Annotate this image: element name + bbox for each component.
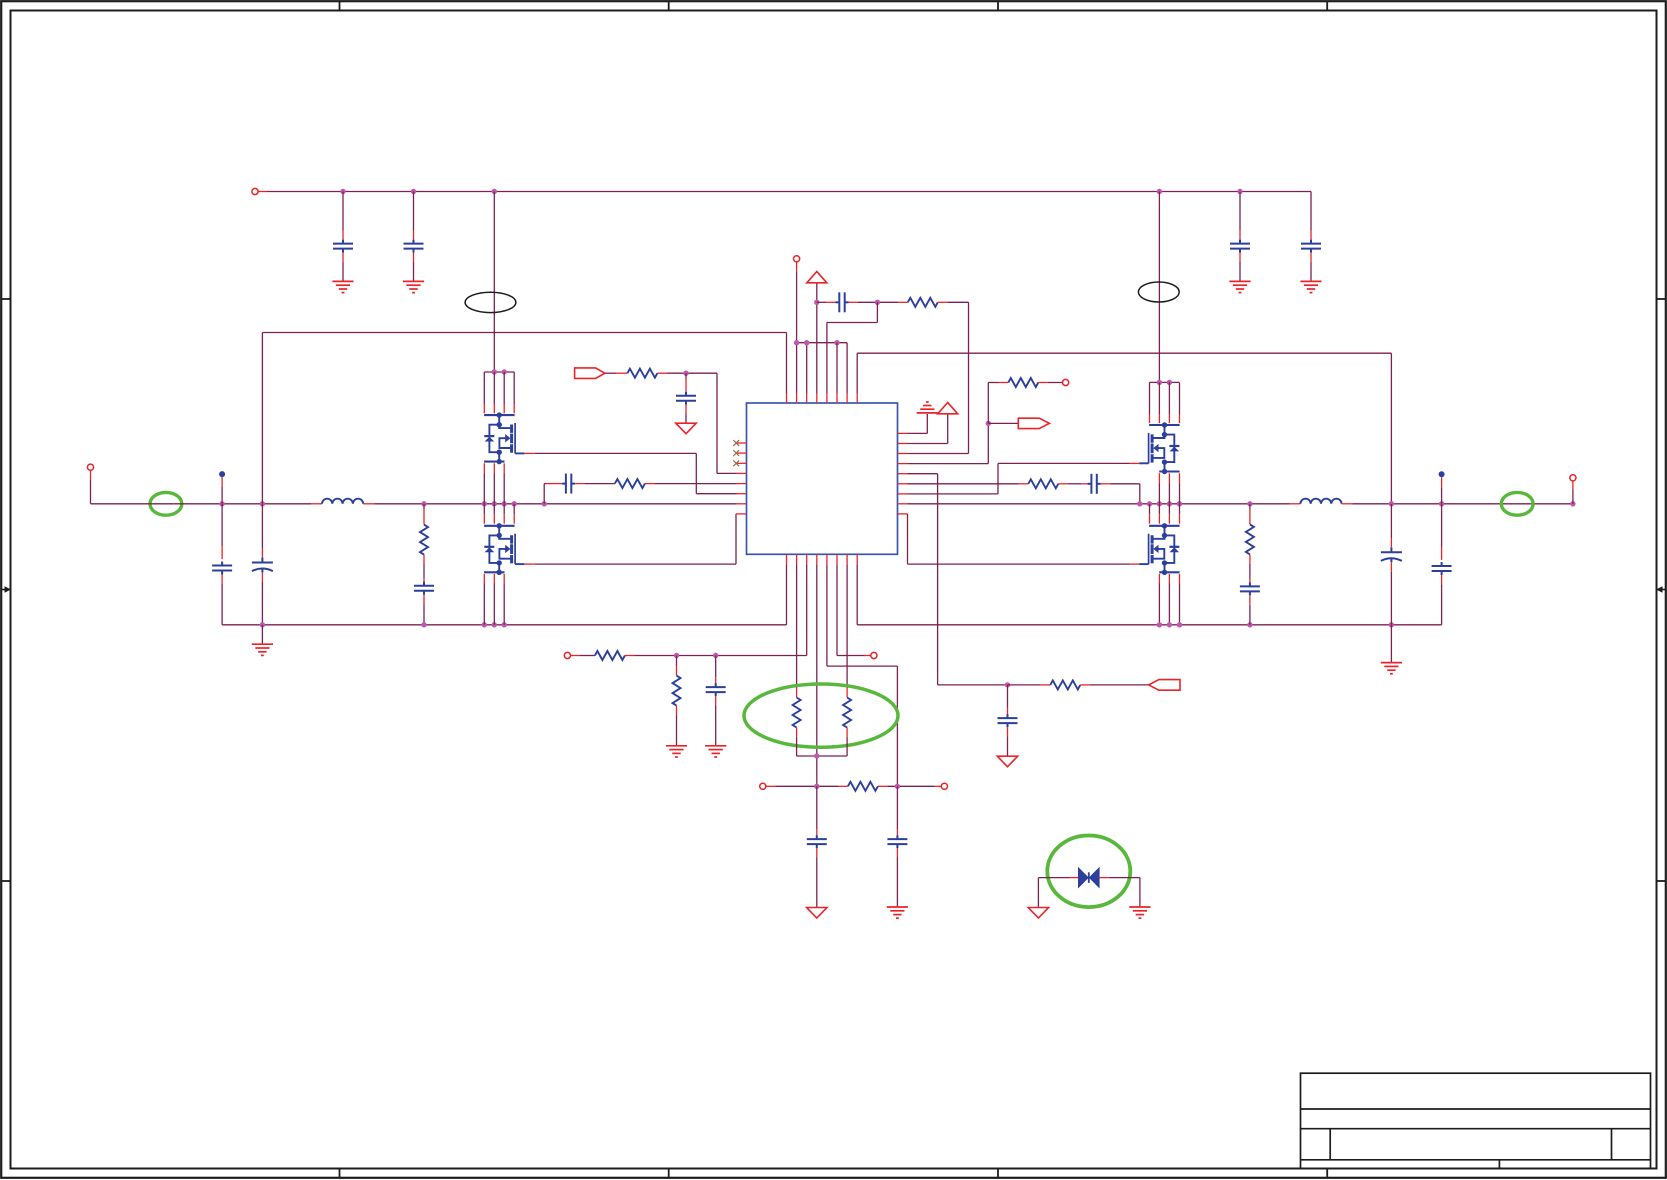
junction [492, 622, 497, 627]
wire: D1 pin [1100, 877, 1109, 879]
capacitor C10 [1301, 240, 1321, 253]
capacitor C13 [887, 835, 907, 848]
junction [1439, 501, 1444, 506]
transistor Q2 (low-side left) [483, 504, 485, 514]
frame zone tick top [1326, 1, 1328, 11]
wire [908, 493, 999, 495]
wire: compensation row [817, 301, 826, 303]
wire: node to C4 [261, 504, 263, 548]
junction [1147, 501, 1152, 506]
ferrite/measure ellipse right [1138, 282, 1179, 302]
junction [482, 501, 487, 506]
op-amp/controller U1 [747, 403, 898, 554]
capacitor C14 [562, 474, 575, 494]
junction [794, 340, 799, 345]
frame zone tick top [668, 1, 670, 11]
wire: rail to C2 [413, 192, 415, 231]
wire: RS1 top pin [796, 688, 798, 697]
wire [1038, 877, 1069, 879]
terminal (prog-) [760, 783, 766, 789]
wire: node to C3 [221, 504, 223, 546]
ferrite/measure ellipse left [465, 292, 516, 312]
wire: U1 right pin stub [898, 483, 908, 485]
wire [826, 564, 828, 666]
frame centering arrow right [1656, 586, 1666, 592]
frame zone tick top [339, 1, 341, 11]
junction [804, 340, 809, 345]
junction [986, 421, 991, 426]
wire [858, 301, 898, 303]
frame zone tick bottom [997, 1169, 999, 1179]
wire [836, 564, 838, 655]
junction [542, 501, 547, 506]
resistor R3 [420, 525, 428, 555]
wire: U1 top pin stub [806, 394, 808, 404]
wire [947, 301, 968, 303]
frame zone tick bottom [668, 1169, 670, 1179]
capacitor C2 [404, 240, 424, 253]
power ground [807, 908, 827, 919]
power arrow VCC [807, 272, 827, 283]
ground [332, 281, 353, 292]
wire: U1 top pin stub [836, 394, 838, 404]
capacitor C17 [1088, 474, 1101, 494]
wire: U1 top pin stub [786, 394, 788, 404]
junction [895, 784, 900, 789]
wire: U1 pin stub [737, 503, 747, 505]
wire [938, 684, 1008, 686]
power ground [1028, 908, 1048, 919]
wire [1572, 490, 1574, 504]
junction [814, 784, 819, 789]
terminal (sense) [794, 256, 800, 262]
wire [896, 666, 898, 786]
wire [544, 483, 546, 485]
wire: VCC pin [816, 283, 818, 394]
wire: down to U1 right pin3 [968, 302, 970, 453]
junction [492, 369, 497, 374]
wire: node to R3 [423, 504, 425, 509]
wire [908, 473, 938, 475]
terminal (input supply) [252, 188, 258, 194]
power ground [997, 756, 1017, 767]
wire: U1 top pin stub [816, 394, 818, 404]
wire [654, 483, 736, 485]
capacitor C3 [212, 562, 232, 575]
ground [1129, 907, 1150, 918]
resistor R10 [595, 651, 625, 660]
resistor R5 [1008, 378, 1038, 387]
capacitor C9 [1230, 240, 1250, 253]
ground [1300, 281, 1321, 292]
wire: left output line [91, 503, 312, 505]
transistor Q4 (low-side right) [1149, 504, 1151, 514]
green highlight circle (TVS) [1047, 836, 1130, 908]
wire [876, 302, 878, 322]
green highlight ellipse right [1501, 492, 1533, 515]
junction [814, 300, 819, 305]
inductor L1 [322, 499, 363, 504]
wire: node to RC row [543, 484, 545, 504]
wire: rail to C10 [1310, 192, 1312, 231]
wire: U1 right pin stub [898, 473, 908, 475]
wire: node to C12 [1441, 504, 1443, 547]
wire: right switch node [908, 503, 1290, 505]
capacitor C4 (polarized) [252, 558, 273, 573]
wire [908, 463, 989, 465]
junction [1247, 501, 1252, 506]
capacitor C12 [1432, 562, 1452, 575]
capacitor C5 [414, 582, 434, 595]
green highlight ellipse left [150, 492, 182, 515]
wire: U1 right pin stub [898, 432, 908, 434]
frame centering arrow left [1, 586, 11, 592]
wire: D1 pin [1070, 877, 1079, 879]
wire [827, 665, 898, 667]
capacitor C15 [836, 292, 849, 312]
wire: rail to ground [1390, 625, 1392, 662]
wire [856, 353, 858, 393]
wire: pinA to ground rail [786, 564, 788, 624]
TVS diode D1 (bidirectional) [1078, 867, 1100, 889]
no-connect X [733, 460, 739, 466]
capacitor C11 (polarized) [1381, 547, 1402, 562]
junction [421, 622, 426, 627]
transistor Q3 (high-side right) [1150, 381, 1180, 383]
wire: rail to C1 [342, 192, 344, 231]
wire: stub [796, 262, 798, 271]
wire: to C13 [896, 786, 898, 829]
ground [1229, 281, 1250, 292]
wire: rail to C9 [1239, 192, 1241, 231]
junction [1237, 189, 1242, 194]
title block [1301, 1073, 1651, 1168]
junction [1005, 682, 1010, 687]
capacitor C7 [706, 683, 726, 696]
junction [260, 622, 265, 627]
wire: to left sense row [806, 564, 808, 655]
wire [988, 382, 999, 384]
resistor R11 [673, 676, 681, 706]
wire: U1 right pin stub [898, 463, 908, 465]
wire: U1 pin stub [737, 472, 747, 474]
signal earth [917, 402, 938, 413]
junction [219, 501, 224, 506]
wire [836, 343, 838, 394]
wire: U1 right pin stub [898, 453, 908, 455]
frame zone tick top [997, 1, 999, 11]
frame zone tick bottom [1326, 1169, 1328, 1179]
wire: right ground rail [857, 624, 1441, 626]
junction [482, 622, 487, 627]
wire [1037, 878, 1039, 907]
wire: stub [766, 785, 776, 787]
wire: right output line [1352, 503, 1573, 505]
wire [1139, 484, 1141, 504]
transistor Q4 symbol [1139, 523, 1179, 575]
wire: U1 right pin stub [898, 513, 908, 515]
wire [796, 271, 798, 393]
junction [502, 369, 507, 374]
wire: rail to ground [261, 625, 263, 644]
wire: Q2 gate to U1 [535, 563, 736, 565]
wire: Q3 gate pin [1130, 462, 1140, 464]
ground [666, 746, 687, 757]
wire: U1 bottom pin stub [846, 554, 848, 564]
wire [837, 655, 864, 657]
wire: U1 right pin stub [898, 493, 908, 495]
signal flag (left) [575, 368, 605, 379]
junction [492, 189, 497, 194]
wire: U1 bottom pin stub [826, 554, 828, 564]
wire [827, 322, 878, 324]
junction [683, 371, 688, 376]
terminal (monitor) [871, 652, 877, 658]
frame zone tick left [1, 880, 11, 882]
test point TP1 [219, 471, 225, 477]
wire [1109, 877, 1140, 879]
wire [908, 483, 1019, 485]
wire [908, 453, 969, 455]
wire: node to C11 [1390, 504, 1392, 538]
wire: center sense vertical [816, 564, 818, 786]
junction [834, 340, 839, 345]
inductor L2 [1300, 499, 1341, 504]
capacitor C8 [807, 835, 827, 848]
junction [411, 189, 416, 194]
wire: U1 right pin stub [898, 443, 908, 445]
wire [1110, 483, 1140, 485]
capacitor C6 [676, 392, 696, 405]
wire: rail to Q3 drain [1158, 192, 1160, 383]
ground [1381, 663, 1402, 674]
wire [585, 483, 615, 485]
wire [715, 656, 717, 678]
junction [1137, 501, 1142, 506]
wire: Q1 gate to U1 [535, 452, 696, 454]
wire: U1 bottom pin stub [816, 554, 818, 564]
junction [1247, 622, 1252, 627]
transistor Q1 symbol [484, 412, 524, 464]
junction [260, 501, 265, 506]
wire [988, 422, 1018, 424]
junction [502, 501, 507, 506]
wire [676, 656, 678, 667]
terminal (enable) [1063, 379, 1069, 385]
capacitor C16 [998, 714, 1018, 727]
junction [502, 622, 507, 627]
wire [1390, 353, 1392, 504]
wire: top bus [797, 342, 848, 344]
wire: to C8 [816, 786, 818, 829]
frame zone tick left [1, 298, 11, 300]
wire: long run to right filter [857, 352, 1391, 354]
test point TP2 [1439, 471, 1445, 477]
wire: Q4 gate route [908, 563, 1130, 565]
junction [674, 653, 679, 658]
wire [667, 372, 717, 374]
wire [926, 414, 928, 433]
junction [1167, 622, 1172, 627]
wire [987, 383, 989, 424]
junction [1167, 380, 1172, 385]
junction [1177, 501, 1182, 506]
transistor Q3 symbol [1139, 422, 1179, 474]
wire [1139, 878, 1141, 907]
wire: node to R9 [1249, 504, 1251, 509]
wire: left switch node [374, 503, 736, 505]
junction [340, 189, 345, 194]
signal flag (right lower) [1149, 680, 1180, 691]
wire [1048, 382, 1063, 384]
wire [997, 463, 999, 494]
wire: U1 NC pin [737, 452, 747, 454]
resistor R12 [848, 782, 878, 791]
junction [421, 501, 426, 506]
wire: to sense resistor RS1 [796, 564, 798, 688]
wire: stub [571, 655, 581, 657]
ground [705, 746, 726, 757]
ground [252, 644, 273, 655]
wire [907, 514, 909, 564]
frame zone tick bottom [339, 1169, 341, 1179]
no-connect X [733, 450, 739, 456]
wire [90, 480, 92, 504]
wire: U1 top pin stub [856, 394, 858, 404]
wire: U1 bottom pin stub [856, 554, 858, 564]
green highlight ellipse (sense resistors) [744, 684, 898, 747]
junction [1389, 501, 1394, 506]
wire: to C16 [1007, 685, 1009, 708]
ground [403, 281, 424, 292]
wire [806, 343, 808, 394]
terminal (Isense+) [564, 652, 570, 658]
wire: down right of U1 [937, 474, 939, 685]
junction [1157, 189, 1162, 194]
wire: U1 NC pin [737, 462, 747, 464]
wire: U1 NC pin [737, 442, 747, 444]
wire: vertical to flag row [716, 373, 718, 473]
wire: terminal stub [90, 470, 92, 480]
wire: Q3 gate route [998, 462, 1130, 464]
ground [887, 907, 908, 918]
wire: U1 top pin stub [796, 394, 798, 404]
junction [875, 300, 880, 305]
terminal (prog+) [941, 783, 947, 789]
junction [1157, 380, 1162, 385]
wire [947, 414, 949, 444]
junction [1167, 501, 1172, 506]
wire: long feedback run [262, 332, 786, 334]
wire: to C6 [685, 373, 687, 378]
wire [796, 737, 798, 756]
wire [908, 432, 928, 434]
junction [1177, 622, 1182, 627]
resistor R6 [1028, 479, 1058, 488]
wire: rail to Q1 drain [493, 192, 495, 373]
transistor Q1 (high-side left) [484, 371, 514, 373]
resistor RS1 [793, 698, 801, 728]
frame zone tick right [1657, 298, 1667, 300]
wire [580, 655, 595, 657]
wire [1008, 684, 1041, 686]
junction [1157, 622, 1162, 627]
resistor R9 [1246, 524, 1254, 554]
wire: U1 bottom pin stub [836, 554, 838, 564]
wire: RS2 top pin [846, 688, 848, 697]
junction [492, 501, 497, 506]
terminal OUT-A [87, 464, 93, 470]
wire: U1 pin stub [736, 513, 747, 515]
wire [908, 443, 948, 445]
wire: Q2 gate pin [524, 563, 535, 565]
junction [814, 753, 819, 758]
wire: top power rail [267, 191, 1311, 193]
resistor R8 [1050, 680, 1080, 689]
no-connect X [733, 440, 739, 446]
wire: to sense resistor RS2 [846, 564, 848, 688]
resistor R1 [627, 369, 657, 378]
wire: U1 bottom pin stub [796, 554, 798, 564]
wire: U1 bottom pin stub [786, 554, 788, 564]
wire: sense row [634, 655, 806, 657]
wire [1090, 684, 1149, 686]
wire: pin1 up [786, 333, 788, 394]
wire: prog row [775, 785, 838, 787]
wire: U1 bottom pin stub [806, 554, 808, 564]
wire [826, 323, 828, 394]
terminal OUT-B [1570, 475, 1576, 481]
resistor RS2 [843, 698, 851, 728]
power ground [676, 423, 696, 434]
wire [717, 472, 737, 474]
capacitor C1 [333, 240, 353, 253]
junction [1570, 501, 1575, 506]
junction [1389, 622, 1394, 627]
wire: U1 top pin stub [846, 394, 848, 404]
wire: left ground rail [222, 624, 786, 626]
junction [713, 653, 718, 658]
signal flag (right upper) [1018, 418, 1049, 428]
wire: sense bottom tie [797, 755, 848, 757]
power arrow [938, 403, 958, 414]
resistor R4 [908, 298, 938, 307]
wire: U1 pin stub [737, 493, 747, 495]
junction [1157, 501, 1162, 506]
wire: U1 top pin stub [826, 394, 828, 404]
wire: Q1 gate pin [524, 452, 535, 454]
capacitor C18 [1240, 582, 1260, 595]
frame zone tick right [1657, 880, 1667, 882]
transistor Q2 symbol [484, 523, 524, 575]
wire: Q4 gate pin [1130, 563, 1140, 565]
wire: pinH to right ground rail [856, 564, 858, 624]
wire [1068, 483, 1082, 485]
wire [987, 423, 989, 463]
resistor R2 [615, 479, 645, 488]
junction [512, 501, 517, 506]
wire [605, 372, 616, 374]
wire: U1 right pin stub [898, 503, 908, 505]
wire: rail pin stub [258, 191, 267, 193]
wire [846, 737, 848, 756]
wire: feedback vertical [261, 333, 263, 504]
wire [887, 785, 934, 787]
wire [846, 343, 848, 394]
wire: U1 pin stub [737, 483, 747, 485]
